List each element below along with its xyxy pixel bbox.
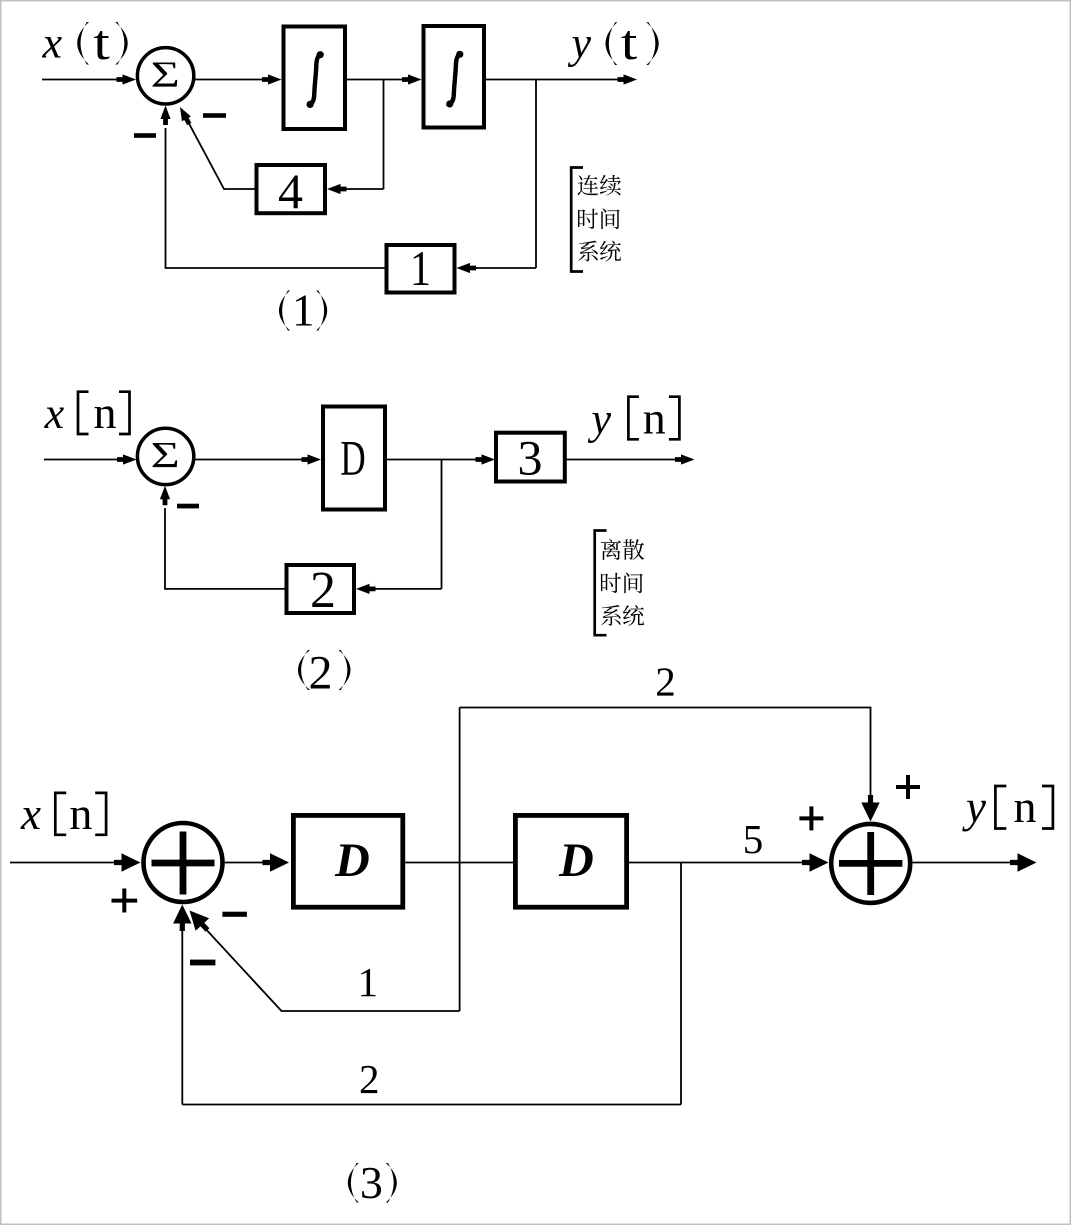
wire: gain 1 to summer (bottom feedback): [166, 128, 385, 268]
summer S1 (sigma): [137, 48, 193, 104]
wire: feedforward coeff 2 from node D over the top into adder A2: [460, 708, 871, 798]
gain box 3: [496, 429, 565, 485]
svg-text:n: n: [69, 788, 92, 839]
svg-text:t: t: [93, 14, 109, 70]
wire: adder A1 to delay D1: [225, 862, 266, 864]
svg-text:n: n: [1014, 781, 1037, 832]
svg-text:2: 2: [309, 647, 333, 700]
bracket for note 2: [595, 531, 607, 636]
integrator box U2: [424, 26, 485, 128]
svg-text:x: x: [44, 389, 65, 438]
wire: integrator U2 to output y(t): [486, 79, 621, 81]
wire: adder A2 to output y[n]: [912, 862, 1010, 864]
arrowhead output y[n]: [675, 454, 695, 464]
svg-text:x: x: [42, 19, 63, 68]
arrowhead up into adder A1 bottom: [173, 905, 191, 932]
arrowhead into integrator U2: [402, 74, 422, 84]
svg-text:1: 1: [410, 241, 431, 296]
wire: coeff 1 feedback from node D to adder A1 (diagonal): [207, 930, 460, 1011]
svg-text:3: 3: [518, 429, 543, 485]
wire: delay D to gain box 3: [387, 459, 477, 461]
wire: output tap to gain box 1: [473, 267, 536, 269]
wire: delay D1 to delay D2: [405, 862, 513, 864]
svg-text:x: x: [20, 789, 41, 839]
svg-text:4: 4: [278, 163, 303, 219]
arrowhead into gain box 3: [476, 454, 496, 464]
wire: x[n] input to adder A1: [10, 862, 116, 864]
svg-text:n: n: [643, 393, 666, 444]
node E: tap after D2, vertical drop to coeff-2 bottom feedback: [680, 863, 682, 1105]
svg-text:2: 2: [310, 562, 336, 619]
bracket for note 1: [571, 168, 583, 272]
arrowhead into gain box 4: [327, 184, 347, 194]
arrowhead into adder A2: [802, 853, 829, 871]
arrowhead into summer S1: [117, 74, 137, 84]
node C: tap after delay, vertical drop to gain 2 feedback: [441, 460, 443, 589]
label x[n] (diagram 3): [20, 788, 106, 839]
plus sign at adder A2 left input: [799, 806, 823, 830]
label (1): [279, 285, 327, 335]
label x(t): [42, 14, 128, 70]
label y[n] (diagram 3): [962, 781, 1053, 832]
arrowhead down into adder A2 top: [861, 795, 879, 822]
svg-text:D: D: [558, 834, 594, 887]
label y(t): [568, 14, 659, 70]
arrowhead into gain box 2: [356, 584, 376, 594]
svg-text:n: n: [94, 387, 117, 438]
wire: gain 4 to summer (diagonal feedback): [186, 117, 255, 189]
arrowhead into delay box D: [302, 454, 322, 464]
minus sign at adder A1 bottom input: [190, 960, 215, 966]
minus sign at summer S2 input: [177, 504, 199, 509]
wire: gain 3 to output y[n]: [566, 459, 679, 461]
gain box 4: [257, 163, 326, 219]
svg-text:5: 5: [743, 816, 764, 862]
node A: tap between integrators, vertical drop to gain 4 feedback: [383, 80, 385, 190]
arrowhead up into summer S2: [160, 486, 170, 506]
wire: tap to gain box 2: [373, 588, 442, 590]
delay box D1 (diagram 3): [293, 815, 402, 907]
svg-text:1: 1: [292, 285, 315, 335]
note text: discrete-time system: [601, 539, 644, 626]
svg-text:t: t: [621, 14, 637, 70]
minus sign at summer bottom input: [134, 133, 156, 138]
arrowhead output y(t): [618, 74, 638, 84]
gain box 1: [387, 241, 455, 296]
wire: coeff 2 bottom feedback from node E to adder A1: [182, 1104, 681, 1106]
svg-text:y: y: [568, 19, 592, 68]
wire: summer S2 to delay box D: [194, 459, 305, 461]
node D: tap between delays, vertical line up to coeff-2 feedforward and down to coeff-1 feedback: [459, 708, 461, 1012]
svg-text:y: y: [962, 782, 986, 832]
label x[n] (discrete): [44, 387, 130, 438]
svg-text:2: 2: [359, 1056, 380, 1102]
minus sign at summer diagonal input: [203, 113, 226, 118]
wire: gain 2 to summer S2 feedback: [165, 508, 285, 589]
wire: x[n] input to summer S2: [44, 459, 121, 461]
arrowhead into delay D1: [263, 853, 290, 871]
wire: tap to gain box 4: [344, 188, 384, 190]
wire: x(t) input to summer: [42, 79, 121, 81]
integrator box U1: [284, 27, 346, 130]
svg-text:2: 2: [655, 658, 676, 704]
adder A1 (circle with plus): [144, 823, 223, 902]
minus sign at adder A1 diagonal input: [222, 912, 247, 917]
arrowhead into adder A1: [114, 853, 141, 871]
svg-text:1: 1: [358, 959, 379, 1005]
note text: continuous-time system: [577, 175, 621, 262]
plus sign at adder A2 top input: [896, 775, 920, 799]
arrowhead diagonal into summer: [176, 105, 194, 127]
delay box D (diagram 2): [323, 407, 385, 510]
svg-text:Σ: Σ: [151, 435, 180, 476]
arrowhead into gain box 1: [457, 263, 477, 273]
node B: output tap, vertical drop to gain 1 feedback: [535, 80, 537, 269]
arrowhead diagonal into adder A1: [183, 904, 214, 936]
plus sign at adder A1 input: [112, 889, 138, 913]
svg-text:D: D: [340, 432, 365, 486]
arrowhead into summer S2: [117, 454, 137, 464]
arrowhead up into summer from gain 1: [160, 106, 170, 126]
delay box D2 (diagram 3): [515, 815, 626, 907]
label (3): [348, 1157, 397, 1208]
wire: integrator U1 to integrator U2: [347, 79, 405, 81]
wire: summer to integrator U1: [194, 79, 265, 81]
label (2): [298, 647, 351, 700]
arrowhead into integrator U1: [262, 74, 282, 84]
wire: delay D2 to adder A2: [629, 862, 803, 864]
summer S2 (sigma): [137, 428, 193, 484]
svg-text:D: D: [334, 834, 370, 887]
svg-text:y: y: [588, 395, 612, 444]
svg-text:Σ: Σ: [151, 54, 180, 95]
adder A2 (circle with plus): [831, 824, 910, 903]
arrowhead output y[n] (diagram 3): [1010, 853, 1037, 871]
gain box 2 (feedback): [287, 562, 355, 619]
label y[n] (diagram 2): [588, 393, 680, 444]
svg-text:3: 3: [360, 1157, 383, 1208]
